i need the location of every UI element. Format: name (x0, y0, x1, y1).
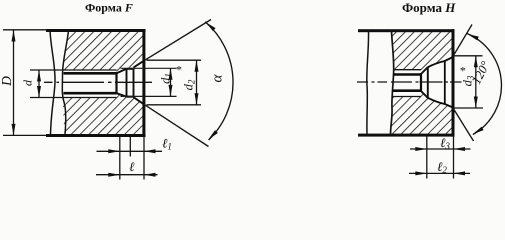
svg-text:Форма H: Форма H (402, 0, 456, 15)
block top edge (46, 29, 146, 32)
hole top line (64, 72, 117, 75)
dimension l1 line (97, 150, 163, 152)
drill cone bottom (117, 93, 127, 97)
angle ray top (144, 20, 211, 61)
extension below V2 (426, 137, 428, 179)
title Форма F (85, 1, 133, 15)
dimension l2 line (409, 172, 470, 174)
hole bottom line (64, 92, 117, 95)
thread major line bottom (30, 97, 117, 99)
block bottom edge (46, 134, 146, 137)
svg-text:α: α (210, 73, 226, 82)
hole top line (393, 73, 421, 76)
d1 extension top (121, 67, 177, 69)
angle arc (205, 22, 233, 140)
flare tangent silhouette (444, 61, 446, 104)
block face (452, 29, 455, 136)
extension below face (143, 137, 145, 180)
svg-text:ℓ: ℓ (129, 159, 135, 174)
hatch upper area (55, 25, 150, 75)
drill cone top (421, 67, 428, 74)
d2 extension bottom (147, 104, 202, 106)
cylinder d1 end silhouette V3 (133, 69, 135, 97)
dimension d1 line (170, 68, 172, 96)
throat silhouette V2 (427, 67, 429, 98)
dimension d3 line (475, 56, 477, 108)
hole end silhouette V1 (420, 73, 422, 92)
cylinder d1 top line (127, 68, 134, 70)
countersink cone bottom (134, 97, 144, 104)
svg-text:D: D (0, 76, 14, 87)
block bottom edge (358, 134, 455, 137)
cylinder d1 silhouette V2 (126, 69, 128, 97)
d2 extension top (147, 59, 202, 61)
d1 extension bottom (121, 95, 177, 97)
angle arc (467, 34, 501, 135)
hole end silhouette V1 (115, 73, 117, 95)
svg-text:Форма F: Форма F (85, 1, 133, 15)
flare curve top (428, 57, 453, 67)
break line 1 (367, 31, 369, 136)
angle ray bottom (453, 108, 474, 141)
break line 1 (50, 31, 55, 136)
flare curve bottom (428, 98, 453, 108)
centerline (357, 81, 462, 83)
dimension l3 line (410, 148, 471, 150)
svg-text:*: * (176, 63, 182, 77)
break line 2 (391, 31, 394, 136)
thread major line top (30, 69, 117, 71)
block face (142, 29, 145, 137)
D extension bottom (3, 134, 47, 136)
d3 extension bottom (455, 107, 484, 109)
angle ray bottom (144, 104, 209, 146)
hole bottom line (393, 89, 422, 92)
hatch lower area (375, 88, 460, 140)
svg-text:d: d (21, 79, 35, 86)
thread major line top (394, 69, 422, 71)
drill cone top (117, 69, 127, 74)
break line 2 (62, 31, 68, 136)
svg-text:*: * (460, 64, 466, 78)
angle ray top (453, 25, 472, 57)
drill cone bottom (421, 91, 428, 98)
dimension d line (38, 70, 40, 98)
extension below V2 (129, 137, 131, 157)
extension below V1 (119, 137, 121, 180)
countersink cone top (134, 61, 144, 68)
cylinder d1 bottom line (127, 96, 134, 98)
dimension d2 line (196, 60, 198, 105)
hatch upper area (375, 25, 460, 77)
D extension top (3, 29, 47, 31)
extension below face (453, 137, 455, 179)
d3 extension top (455, 55, 483, 57)
thread major line bottom (393, 96, 422, 98)
centerline (44, 81, 152, 83)
title Форма H (402, 0, 456, 15)
dimension D line (13, 30, 15, 135)
block top edge (358, 29, 455, 32)
dimension l line (96, 174, 158, 176)
hatch lower area (55, 90, 150, 140)
